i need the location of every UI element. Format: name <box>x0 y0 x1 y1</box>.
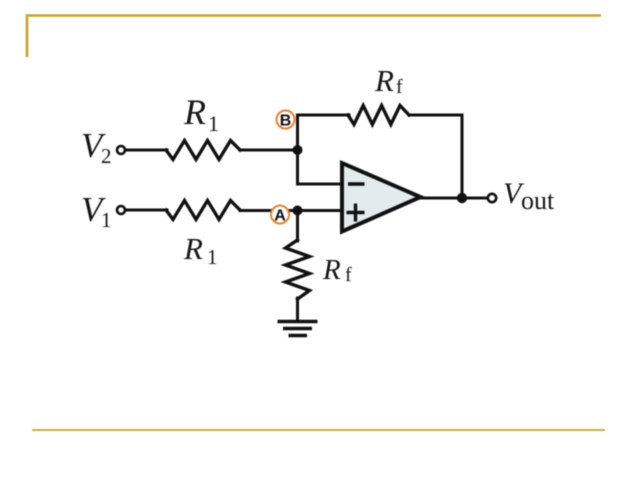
svg-text:out: out <box>521 186 555 215</box>
svg-text:2: 2 <box>101 144 112 168</box>
svg-text:A: A <box>274 208 286 225</box>
wire output <box>421 197 488 200</box>
wire R1 to plus input <box>240 209 341 212</box>
resistor Rf (to ground) <box>286 240 310 299</box>
resistor R1 (top) <box>166 141 240 160</box>
slide top gold border <box>27 16 601 58</box>
svg-text:R: R <box>183 231 203 266</box>
wire minus input <box>298 183 342 186</box>
resistor R1 (bottom) <box>166 201 240 220</box>
terminal Vout <box>488 194 496 202</box>
wire feedback top left <box>298 114 350 117</box>
terminal V1 <box>117 206 125 214</box>
svg-text:f: f <box>396 76 403 98</box>
svg-text:R: R <box>374 63 394 98</box>
wire R1 to node B <box>240 149 298 152</box>
svg-text:R: R <box>322 254 341 286</box>
svg-text:B: B <box>280 113 292 130</box>
svg-text:f: f <box>345 264 352 286</box>
op-amp U1 <box>342 163 421 232</box>
node A badge <box>271 206 289 224</box>
wire Rf to ground <box>296 298 299 320</box>
resistor Rf (feedback) <box>348 106 409 125</box>
node B junction <box>293 145 303 155</box>
svg-text:1: 1 <box>207 245 218 269</box>
wire feedback down to output <box>461 115 464 198</box>
svg-text:R: R <box>183 92 206 132</box>
node output junction <box>457 193 467 203</box>
ground <box>278 322 318 336</box>
node A junction <box>293 206 303 216</box>
wire node B vertical <box>296 115 299 184</box>
op-amp minus sign <box>348 182 365 186</box>
wire V2 terminal to R1 <box>126 149 168 152</box>
svg-text:1: 1 <box>208 111 219 136</box>
wire V1 terminal to R1 <box>126 209 168 212</box>
slide bottom gold rule <box>32 429 605 431</box>
terminal V2 <box>117 146 125 154</box>
node B badge <box>277 111 295 129</box>
wire feedback top right <box>409 114 462 117</box>
svg-text:1: 1 <box>101 208 112 232</box>
op-amp plus sign <box>347 204 365 222</box>
wire node A down <box>296 211 299 242</box>
